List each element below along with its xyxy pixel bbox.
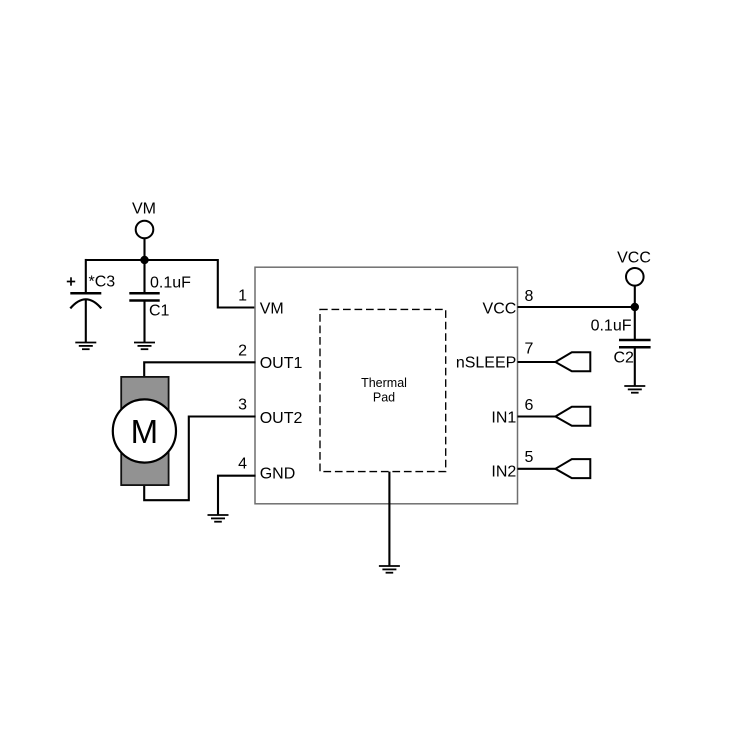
svg-text:nSLEEP: nSLEEP [456, 355, 516, 372]
wire C2 bottom lead [634, 347, 636, 386]
capacitor C2 top plate [619, 339, 651, 342]
wire C3 bottom lead [85, 300, 87, 343]
svg-text:2: 2 [238, 342, 247, 359]
ground under thermal pad [379, 566, 400, 573]
IC U1 body [255, 267, 518, 504]
svg-text:VM: VM [260, 300, 284, 317]
wire C3 top lead [85, 259, 87, 293]
wire pin 3 to motor [144, 417, 255, 501]
svg-text:GND: GND [260, 465, 296, 482]
svg-text:IN2: IN2 [491, 463, 516, 480]
svg-text:C1: C1 [149, 303, 170, 320]
wire pin 4 to ground [218, 476, 256, 515]
capacitor C1 bottom plate [129, 299, 159, 302]
thermal pad dashed outline [320, 309, 446, 471]
ground under C3 [75, 343, 96, 350]
svg-text:M: M [131, 413, 159, 450]
wire thermal pad to ground [388, 472, 390, 566]
svg-text:VM: VM [132, 201, 156, 218]
wire VM terminal to node [143, 239, 145, 260]
wire VCC terminal to node [634, 286, 636, 307]
wire C2 top lead [634, 307, 636, 340]
wire pin 2 to motor [144, 362, 255, 377]
svg-text:6: 6 [525, 397, 534, 414]
svg-text:1: 1 [238, 288, 247, 305]
ground under C1 [134, 343, 155, 350]
svg-text:Thermal: Thermal [361, 376, 407, 390]
capacitor C1 top plate [129, 292, 159, 295]
ground at pin 4 [208, 515, 229, 522]
node VCC junction dot [631, 303, 639, 311]
svg-text:3: 3 [238, 397, 247, 414]
svg-text:*C3: *C3 [89, 274, 116, 291]
capacitor C3 top plate [70, 292, 101, 295]
input tag nSLEEP [555, 352, 590, 371]
node VM junction dot [140, 256, 148, 264]
svg-text:VCC: VCC [617, 250, 651, 267]
svg-text:7: 7 [525, 341, 534, 358]
motor body [121, 377, 168, 485]
svg-text:OUT2: OUT2 [260, 410, 303, 427]
wire pin 5 stub [518, 468, 557, 470]
wire C1 top lead [143, 260, 145, 293]
wire C1 bottom lead [143, 301, 145, 343]
svg-text:Pad: Pad [373, 391, 395, 405]
capacitor C2 bottom plate [619, 346, 651, 349]
wire VM bus horizontal [86, 260, 256, 308]
motor M1 circle [113, 399, 176, 462]
wire pin 8 to VCC node [518, 306, 635, 308]
wire pin 6 stub [518, 415, 557, 417]
svg-text:0.1uF: 0.1uF [150, 275, 191, 292]
svg-text:C2: C2 [614, 350, 635, 367]
svg-text:0.1uF: 0.1uF [591, 318, 632, 335]
input tag IN2 [555, 459, 590, 478]
svg-text:5: 5 [525, 449, 534, 466]
capacitor C3 curved plate [70, 299, 101, 308]
input tag IN1 [555, 407, 590, 426]
svg-text:IN1: IN1 [491, 409, 516, 426]
svg-text:4: 4 [238, 456, 247, 473]
terminal VM circle [136, 221, 154, 239]
svg-text:OUT1: OUT1 [260, 355, 303, 372]
terminal VCC circle [626, 268, 644, 286]
svg-text:VCC: VCC [483, 301, 517, 318]
wire pin 7 stub [518, 361, 557, 363]
polarity plus sign of C3 [67, 277, 75, 285]
svg-text:8: 8 [525, 288, 534, 305]
ground under C2 [624, 386, 645, 393]
